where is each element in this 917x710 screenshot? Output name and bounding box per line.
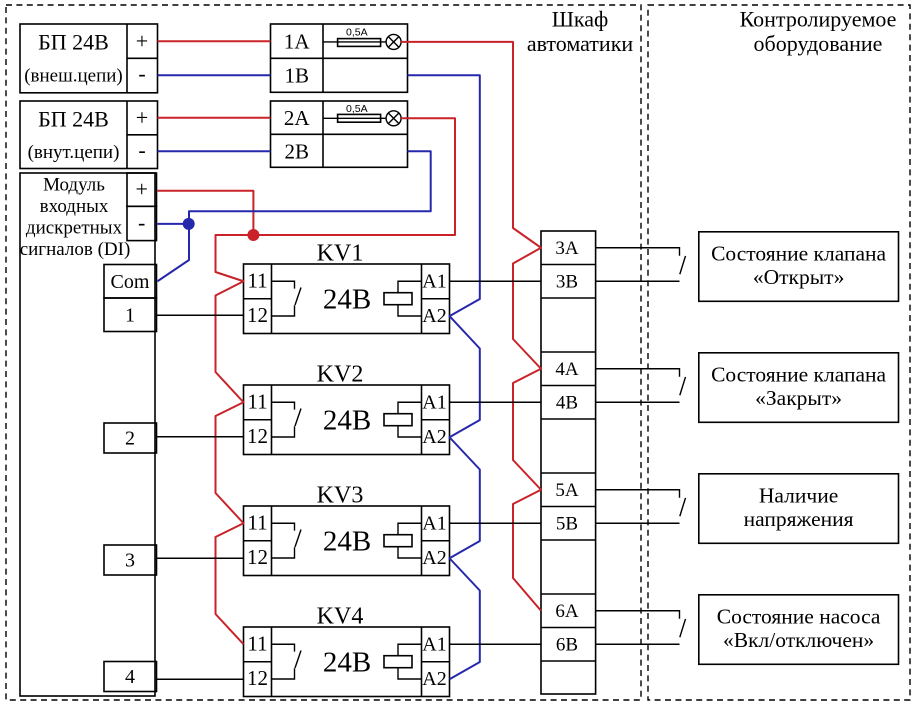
power supply БП 24В (внеш.цепи) [20,24,158,93]
svg-text:24В: 24В [323,646,371,678]
wire: module 4 to KV4 pin 12 (black) [157,678,244,680]
svg-text:«Закрыт»: «Закрыт» [755,386,842,410]
svg-text:Шкаф: Шкаф [552,7,609,32]
wire: KV1 A1 to 3В (black) [450,280,542,282]
relay KV2 coil [384,402,422,437]
svg-text:KV3: KV3 [317,483,364,509]
terminal strip 3А..6В [541,231,596,694]
svg-text:оборудование: оборудование [754,31,883,56]
svg-text:Состояние клапана: Состояние клапана [711,241,886,265]
wire: KV3 A1 to 5В (black) [450,522,542,524]
dashed enclosure: Контролируемое оборудование [648,5,910,700]
svg-text:-: - [138,138,145,163]
svg-text:«Открыт»: «Открыт» [753,265,844,289]
svg-text:БП 24В: БП 24В [38,30,109,55]
svg-text:4: 4 [125,666,135,688]
svg-text:Com: Com [111,271,150,293]
svg-text:A1: A1 [422,270,446,292]
svg-text:A1: A1 [422,633,446,655]
svg-text:+: + [135,177,147,202]
svg-text:11: 11 [247,389,267,413]
svg-text:3А: 3А [555,238,579,259]
power supply БП 24В (внут.цепи) [20,101,158,169]
module terminal Com [104,265,157,299]
switch contact to equipment box 3 [596,490,686,524]
relay KV2 contact 11-12 [272,402,302,437]
module terminal 2 [104,423,157,453]
svg-text:A1: A1 [422,391,446,413]
svg-text:автоматики: автоматики [527,31,634,56]
svg-text:дискретных: дискретных [26,218,123,239]
svg-text:5А: 5А [555,480,579,501]
svg-text:2В: 2В [284,140,309,164]
wire: 1В out to KV A2 zigzag (blue) [408,75,480,679]
relay KV4 contact 11-12 [272,644,302,679]
wire: БП1 - to 1В (blue) [158,74,271,76]
wire: module 3 to KV3 pin 12 (black) [157,557,244,559]
wire: KV4 A1 to 6В (black) [450,643,542,645]
relay KV3 coil [384,523,422,558]
svg-text:(внут.цепи): (внут.цепи) [28,142,120,163]
relay KV4 [244,604,450,697]
svg-text:1В: 1В [284,64,309,88]
svg-text:Наличие: Наличие [759,483,838,507]
DI input module box [20,173,155,696]
svg-text:24В: 24В [323,525,371,557]
equipment box: Состояние клапана «Закрыт» [699,353,899,423]
svg-text:11: 11 [247,631,267,655]
svg-text:сигналов (DI): сигналов (DI) [20,239,131,260]
svg-text:A2: A2 [422,668,446,690]
wire: 2В out to module - and Com (blue) [158,151,431,281]
relay KV3 [244,483,450,576]
wire: БП1 + to 1А (red) [158,40,271,42]
junction: blue node [183,218,195,230]
svg-text:2А: 2А [284,106,311,130]
svg-text:БП 24В: БП 24В [38,107,109,132]
svg-text:A2: A2 [422,305,446,327]
wire: +24В bus branch to module + (red) [158,191,254,235]
module terminal 1 [104,298,157,332]
svg-text:-: - [138,210,145,235]
svg-text:A2: A2 [422,426,446,448]
svg-text:2: 2 [125,428,135,450]
svg-text:+: + [136,105,148,130]
svg-text:24В: 24В [323,404,371,436]
svg-text:A2: A2 [422,547,446,569]
svg-text:KV2: KV2 [317,362,364,388]
svg-text:12: 12 [247,666,268,690]
svg-text:6А: 6А [555,601,579,622]
fuse block 1 (1А/1В) [271,24,408,92]
module terminal 3 [104,545,157,575]
svg-text:24В: 24В [323,283,371,315]
svg-text:12: 12 [247,303,268,327]
relay KV3 contact 11-12 [272,523,302,558]
wire: БП2 + to 2А (red) [158,117,271,119]
relay KV1 coil [384,281,422,316]
svg-text:Состояние насоса: Состояние насоса [717,604,881,628]
wire: fuse2 lamp out to +24В bus and KV coils pins 11 (red) [216,118,456,644]
svg-text:4В: 4В [556,393,578,414]
svg-text:5В: 5В [556,514,578,535]
svg-text:KV1: KV1 [317,241,364,267]
equipment box: Наличие напряжения [699,474,899,544]
svg-text:KV4: KV4 [317,604,364,630]
svg-text:A1: A1 [422,512,446,534]
svg-text:3: 3 [125,550,135,572]
svg-text:4А: 4А [555,359,579,380]
wire: module 2 to KV2 pin 12 (black) [157,436,244,438]
fuse F1 0,5А with lamp [323,27,401,50]
wire: module - branch (blue) [158,223,190,225]
svg-text:+: + [136,29,148,54]
fuse block 2 (2А/2В) [271,101,408,167]
svg-text:6В: 6В [556,635,578,656]
wire: fuse1 lamp out to 3А/4А/5А/6А zigzag (red) [401,42,541,611]
svg-text:1: 1 [125,305,135,327]
relay KV1 contact 11-12 [272,281,302,316]
module terminal - [127,206,157,240]
svg-text:11: 11 [247,268,267,292]
svg-text:Состояние клапана: Состояние клапана [711,362,886,386]
fuse F2 0,5А with lamp [323,103,401,126]
svg-text:12: 12 [247,424,268,448]
switch contact to equipment box 1 [596,248,686,282]
svg-text:11: 11 [247,510,267,534]
relay KV1 [244,241,450,334]
wire: KV2 A1 to 4В (black) [450,401,542,403]
svg-text:-: - [138,61,145,86]
svg-text:0,5А: 0,5А [346,27,368,39]
svg-text:(внеш.цепи): (внеш.цепи) [24,66,123,87]
svg-text:12: 12 [247,545,268,569]
svg-text:«Вкл/отключен»: «Вкл/отключен» [723,628,874,652]
module terminal + [127,173,157,206]
wire: module 1 to KV1 pin 12 (black) [157,314,244,316]
junction: red node [247,229,259,241]
svg-text:1А: 1А [284,30,311,54]
equipment box: Состояние клапана «Открыт» [699,232,899,301]
switch contact to equipment box 2 [596,369,686,403]
relay KV4 coil [384,644,422,679]
svg-text:0,5А: 0,5А [346,103,368,115]
svg-text:Контролируемое: Контролируемое [740,7,897,32]
relay KV2 [244,362,450,455]
svg-text:Модуль: Модуль [43,175,105,196]
svg-text:напряжения: напряжения [744,507,854,531]
svg-text:3В: 3В [556,272,578,293]
equipment box: Состояние насоса «Вкл/отключен» [699,595,899,665]
wire: БП2 - to 2В (blue) [158,150,271,152]
switch contact to equipment box 4 [596,611,686,645]
svg-text:входных: входных [40,196,109,217]
dashed enclosure: Шкаф автоматики [6,5,641,700]
module terminal 4 [104,662,157,692]
